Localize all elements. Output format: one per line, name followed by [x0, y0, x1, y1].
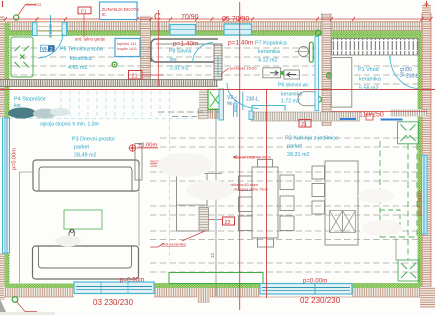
svg-text:P2 Kuhinja z jedilnico: P2 Kuhinja z jedilnico: [285, 136, 338, 142]
svg-text:keramika: keramika: [258, 49, 280, 55]
svg-text:p=0.00m: p=0.00m: [120, 277, 144, 284]
svg-text:parket: parket: [287, 144, 302, 150]
svg-text:230-L: 230-L: [246, 97, 259, 103]
svg-text:les: les: [170, 57, 177, 63]
svg-text:22: 22: [225, 220, 231, 226]
svg-text:2: 2: [50, 47, 53, 53]
svg-text:keramika: keramika: [281, 92, 302, 98]
svg-text:p=-0.00m: p=-0.00m: [418, 191, 424, 216]
svg-text:nadstropna višina 70cm: nadstropna višina 70cm: [230, 188, 268, 192]
svg-text:/00: /00: [405, 67, 412, 73]
svg-text:28,49 m2: 28,49 m2: [74, 153, 96, 159]
svg-text:IC: IC: [102, 12, 107, 17]
svg-text:02 230/230: 02 230/230: [300, 296, 341, 305]
svg-text:dnevak 1438 na 85cm: dnevak 1438 na 85cm: [234, 156, 271, 160]
svg-text:5.56 m2: 5.56 m2: [359, 86, 378, 92]
svg-text:03 230/230: 03 230/230: [93, 298, 134, 307]
svg-text:P7 Kopalnica: P7 Kopalnica: [255, 41, 287, 47]
svg-text:parket: parket: [74, 145, 89, 151]
svg-text:VH: VH: [42, 47, 50, 53]
svg-text:običajna A3 stopn: običajna A3 stopn: [230, 183, 258, 187]
svg-text:12: 12: [210, 252, 215, 258]
svg-text:110/250: 110/250: [359, 112, 384, 119]
svg-text:p=1.40m: p=1.40m: [173, 41, 198, 48]
svg-text:P5 Tehnična soba: P5 Tehnična soba: [60, 47, 103, 53]
svg-text:P1 Vhod: P1 Vhod: [358, 67, 379, 73]
svg-text:90/210: 90/210: [48, 24, 53, 38]
svg-text:ZUNANJA DKOTA: ZUNANJA DKOTA: [102, 7, 141, 12]
svg-text:21: 21: [132, 74, 138, 80]
svg-text:ha: ha: [406, 134, 411, 139]
svg-text:70/90: 70/90: [181, 14, 199, 21]
svg-text:1.72 m2: 1.72 m2: [281, 99, 300, 105]
svg-text:P8 Savna: P8 Savna: [169, 49, 192, 55]
svg-text:preklada 16/20: preklada 16/20: [230, 66, 257, 71]
svg-text:keramika: keramika: [70, 56, 92, 62]
svg-text:vodi keramika: vodi keramika: [161, 242, 186, 247]
svg-text:izoplin 1411: izoplin 1411: [117, 47, 137, 51]
svg-text:p=0.00m: p=0.00m: [12, 148, 18, 170]
svg-text:toplotni 141: toplotni 141: [117, 42, 137, 46]
svg-text:230-L: 230-L: [406, 74, 419, 80]
svg-text:C: C: [154, 12, 161, 23]
svg-text:p=0.00m: p=0.00m: [303, 278, 327, 285]
svg-text:P4 Stopnišče: P4 Stopnišče: [14, 97, 46, 103]
svg-text:2.51 m2: 2.51 m2: [170, 66, 189, 72]
svg-text:P6 dnevni wc: P6 dnevni wc: [278, 83, 309, 89]
svg-text:4.65 m2: 4.65 m2: [68, 65, 87, 71]
svg-text:F1: F1: [81, 9, 87, 15]
svg-text:28.31 m2: 28.31 m2: [287, 152, 309, 158]
svg-text:ograja stopnic h min. 1,0m: ograja stopnic h min. 1,0m: [40, 122, 99, 128]
svg-text:4.12 m2: 4.12 m2: [258, 58, 277, 64]
svg-text:P3 Dnevni prostor: P3 Dnevni prostor: [72, 137, 115, 143]
svg-text:05 70/90: 05 70/90: [222, 16, 249, 23]
svg-text:21: 21: [301, 122, 307, 128]
svg-text:ant. talno gretje: ant. talno gretje: [75, 37, 106, 42]
svg-text:Grb Ø12: Grb Ø12: [26, 2, 42, 7]
svg-text:80/230-L: 80/230-L: [233, 95, 238, 112]
svg-text:keramika: keramika: [359, 77, 381, 83]
svg-text:p=1.40m: p=1.40m: [228, 40, 253, 47]
